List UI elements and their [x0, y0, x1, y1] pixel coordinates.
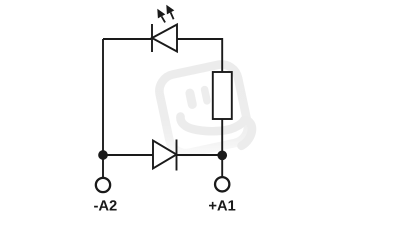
- LED light arrow 2: [166, 5, 174, 20]
- watermark logo left eye slot: [185, 88, 198, 110]
- resistor: [213, 72, 232, 119]
- wire: bottom horizontal right segment (diode cathode to junction): [177, 154, 223, 156]
- label +A1: [209, 200, 235, 210]
- terminal circle +A1: [215, 177, 229, 191]
- label -A2: [94, 200, 117, 210]
- junction dot left: [98, 150, 108, 160]
- junction dot right: [217, 150, 227, 160]
- diode cathode bar: [176, 140, 178, 171]
- watermark logo smile: [180, 117, 252, 146]
- wire: top-left horizontal from left rail to LED cathode: [103, 38, 151, 40]
- LED cathode bar: [151, 24, 153, 52]
- LED triangle: [152, 25, 177, 52]
- wire: left vertical rail: [102, 39, 104, 155]
- terminal circle -A2: [96, 178, 110, 192]
- wire: right stub from junction down to +A1 terminal: [221, 155, 223, 177]
- LED light arrow 1: [157, 9, 165, 23]
- watermark logo rounded square: [156, 61, 251, 156]
- wire: left stub from junction down to -A2 terminal: [102, 155, 104, 178]
- watermark logo right eye slot: [200, 85, 211, 105]
- wire: top-right horizontal from LED anode with corner down to resistor: [177, 39, 222, 72]
- wire: bottom horizontal left segment (junction to diode anode): [103, 154, 153, 156]
- diode triangle (anode left): [153, 141, 177, 169]
- wire: right vertical from resistor bottom to junction: [221, 119, 223, 155]
